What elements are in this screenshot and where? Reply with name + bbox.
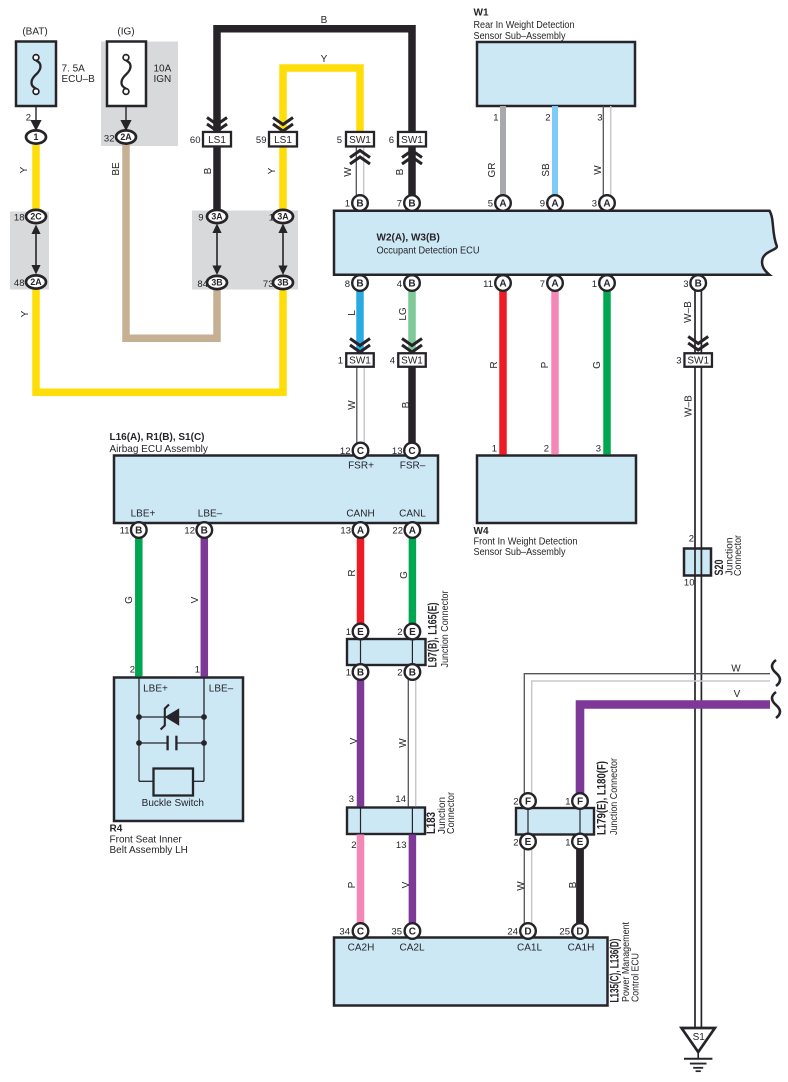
svg-text:13: 13: [396, 840, 407, 851]
svg-text:2A: 2A: [30, 277, 42, 287]
svg-text:2A: 2A: [120, 132, 132, 142]
svg-text:B: B: [395, 168, 406, 175]
svg-text:F: F: [577, 797, 583, 808]
svg-text:A: A: [551, 199, 558, 210]
svg-text:B: B: [135, 526, 142, 537]
svg-text:C: C: [357, 446, 364, 457]
svg-text:73: 73: [263, 279, 274, 290]
svg-text:W2(A), W3(B): W2(A), W3(B): [377, 233, 440, 244]
svg-text:3: 3: [596, 444, 601, 455]
svg-text:E: E: [409, 627, 416, 638]
svg-text:G: G: [399, 571, 410, 579]
svg-text:Sensor Sub–Assembly: Sensor Sub–Assembly: [474, 31, 566, 42]
svg-text:60: 60: [190, 135, 201, 146]
svg-text:W1: W1: [474, 8, 489, 19]
svg-text:3B: 3B: [277, 278, 288, 288]
svg-text:4: 4: [390, 356, 395, 367]
svg-text:W–B: W–B: [683, 301, 694, 323]
svg-text:A: A: [603, 199, 610, 210]
svg-text:E: E: [525, 837, 532, 848]
svg-text:ECU–B: ECU–B: [62, 74, 96, 85]
svg-text:32: 32: [104, 134, 115, 145]
svg-text:14: 14: [395, 794, 406, 805]
svg-text:2: 2: [397, 627, 402, 638]
svg-text:1: 1: [565, 797, 570, 808]
svg-text:5: 5: [337, 135, 342, 146]
svg-text:B: B: [695, 279, 702, 290]
svg-text:11: 11: [483, 279, 493, 290]
svg-text:E: E: [357, 627, 364, 638]
svg-text:2: 2: [545, 113, 550, 124]
svg-text:12: 12: [184, 526, 195, 537]
svg-text:FSR+: FSR+: [348, 461, 374, 472]
svg-text:Belt Assembly LH: Belt Assembly LH: [110, 845, 188, 856]
svg-text:1: 1: [346, 627, 351, 638]
svg-text:B: B: [401, 401, 412, 408]
svg-text:Junction Connector: Junction Connector: [440, 590, 451, 668]
svg-text:7. 5A: 7. 5A: [62, 64, 86, 75]
svg-text:CA1L: CA1L: [517, 943, 542, 954]
svg-text:LS1: LS1: [208, 135, 226, 146]
svg-text:W: W: [347, 400, 358, 410]
svg-text:V: V: [190, 596, 201, 603]
svg-text:2C: 2C: [30, 212, 42, 222]
svg-text:3A: 3A: [277, 212, 289, 222]
svg-text:1: 1: [493, 113, 498, 124]
svg-text:B: B: [203, 167, 214, 174]
svg-text:CANH: CANH: [346, 509, 374, 520]
svg-text:L135(C), L136(D): L135(C), L136(D): [609, 938, 621, 1002]
svg-text:CA2H: CA2H: [348, 943, 375, 954]
svg-text:9: 9: [198, 213, 203, 224]
svg-text:A: A: [551, 279, 558, 290]
svg-text:Y: Y: [267, 167, 278, 174]
svg-text:10: 10: [684, 578, 695, 589]
svg-text:1: 1: [338, 356, 343, 367]
svg-text:3: 3: [349, 794, 354, 805]
svg-text:LBE–: LBE–: [198, 509, 223, 520]
svg-text:Control ECU: Control ECU: [630, 953, 641, 1002]
svg-text:48: 48: [14, 278, 25, 289]
svg-text:W–B: W–B: [684, 395, 695, 417]
svg-text:6: 6: [389, 135, 394, 146]
svg-text:Connector: Connector: [733, 534, 744, 576]
svg-text:24: 24: [507, 927, 518, 938]
svg-text:LS1: LS1: [274, 135, 292, 146]
svg-text:3: 3: [592, 199, 597, 210]
svg-text:FSR–: FSR–: [400, 461, 426, 472]
svg-text:SW1: SW1: [401, 135, 423, 146]
svg-text:LBE+: LBE+: [143, 684, 168, 695]
svg-text:2: 2: [689, 534, 694, 545]
svg-text:F: F: [525, 797, 531, 808]
svg-text:9: 9: [540, 199, 545, 210]
svg-text:A: A: [357, 526, 364, 537]
svg-text:Y: Y: [321, 54, 328, 65]
svg-text:S1: S1: [693, 1032, 706, 1043]
svg-text:CANL: CANL: [399, 509, 426, 520]
svg-text:2: 2: [351, 840, 356, 851]
svg-text:7: 7: [540, 279, 545, 290]
svg-text:3B: 3B: [211, 278, 222, 288]
svg-text:8: 8: [345, 279, 350, 290]
svg-text:SW1: SW1: [349, 356, 371, 367]
svg-text:3: 3: [683, 279, 688, 290]
svg-text:P: P: [347, 881, 358, 888]
svg-text:R: R: [347, 569, 358, 576]
svg-text:V: V: [349, 737, 360, 744]
svg-text:B: B: [408, 199, 415, 210]
svg-text:W: W: [343, 167, 354, 177]
svg-text:2: 2: [130, 665, 135, 676]
svg-text:C: C: [408, 446, 415, 457]
svg-text:R: R: [489, 361, 500, 368]
svg-text:34: 34: [339, 927, 350, 938]
svg-text:P: P: [540, 361, 551, 368]
svg-text:5: 5: [488, 199, 493, 210]
svg-text:D: D: [576, 927, 583, 938]
svg-text:A: A: [499, 199, 506, 210]
svg-text:LG: LG: [398, 307, 409, 321]
svg-text:3A: 3A: [211, 212, 223, 222]
svg-text:W: W: [398, 738, 409, 748]
svg-text:CA2L: CA2L: [399, 943, 424, 954]
svg-text:E: E: [577, 837, 584, 848]
svg-text:35: 35: [391, 927, 402, 938]
svg-text:B: B: [321, 15, 328, 26]
svg-text:2: 2: [513, 797, 518, 808]
svg-text:18: 18: [14, 213, 25, 224]
svg-text:Junction Connector: Junction Connector: [609, 757, 620, 835]
svg-text:LBE–: LBE–: [209, 684, 234, 695]
svg-text:B: B: [201, 526, 208, 537]
svg-text:A: A: [409, 526, 416, 537]
svg-text:C: C: [357, 927, 364, 938]
svg-text:W: W: [516, 881, 527, 891]
svg-text:Y: Y: [19, 166, 30, 173]
svg-text:13: 13: [392, 446, 403, 457]
svg-text:SW1: SW1: [401, 356, 423, 367]
svg-text:2: 2: [513, 838, 518, 849]
svg-text:1: 1: [346, 668, 351, 679]
svg-text:B: B: [356, 279, 363, 290]
svg-text:Sensor Sub–Assembly: Sensor Sub–Assembly: [474, 547, 566, 558]
svg-text:2: 2: [26, 113, 31, 124]
svg-text:1: 1: [195, 665, 200, 676]
svg-text:LBE+: LBE+: [131, 509, 156, 520]
svg-text:B: B: [357, 668, 364, 679]
svg-text:3: 3: [597, 113, 602, 124]
svg-text:1: 1: [565, 838, 570, 849]
svg-text:Y: Y: [20, 310, 31, 317]
svg-text:1: 1: [345, 199, 350, 210]
svg-text:22: 22: [392, 526, 403, 537]
svg-text:84: 84: [197, 279, 208, 290]
svg-text:V: V: [401, 881, 412, 888]
svg-text:(BAT): (BAT): [22, 27, 47, 38]
svg-text:Rear In Weight Detection: Rear In Weight Detection: [474, 20, 575, 31]
svg-text:B: B: [356, 199, 363, 210]
svg-text:1: 1: [34, 132, 39, 142]
svg-text:1: 1: [592, 279, 597, 290]
svg-text:BE: BE: [111, 162, 122, 176]
svg-text:Connector: Connector: [446, 791, 457, 834]
svg-text:W4: W4: [474, 526, 489, 537]
svg-text:L16(A), R1(B), S1(C): L16(A), R1(B), S1(C): [110, 432, 205, 443]
svg-text:Buckle Switch: Buckle Switch: [142, 798, 204, 809]
svg-text:IGN: IGN: [154, 74, 172, 85]
svg-text:SB: SB: [541, 163, 552, 177]
svg-text:(IG): (IG): [117, 27, 134, 38]
svg-text:7: 7: [397, 199, 402, 210]
svg-text:B: B: [409, 668, 416, 679]
svg-text:SW1: SW1: [687, 356, 709, 367]
svg-text:L: L: [347, 310, 358, 316]
svg-text:L179(E), L180(F): L179(E), L180(F): [596, 761, 608, 835]
svg-text:L97(B), L165(E): L97(B), L165(E): [428, 602, 440, 667]
svg-text:4: 4: [397, 279, 402, 290]
svg-text:W: W: [593, 165, 604, 175]
svg-text:C: C: [409, 927, 416, 938]
svg-text:B: B: [408, 279, 415, 290]
svg-text:1: 1: [269, 213, 274, 224]
svg-text:G: G: [124, 596, 135, 604]
svg-text:G: G: [592, 361, 603, 369]
svg-text:1: 1: [492, 444, 497, 455]
svg-text:SW1: SW1: [349, 135, 371, 146]
svg-text:R4: R4: [110, 824, 123, 835]
svg-text:CA1H: CA1H: [568, 943, 595, 954]
svg-text:B: B: [568, 881, 579, 888]
svg-text:Front In Weight Detection: Front In Weight Detection: [474, 537, 578, 548]
svg-text:25: 25: [559, 927, 570, 938]
svg-text:13: 13: [340, 526, 351, 537]
svg-text:2: 2: [544, 444, 549, 455]
svg-text:V: V: [734, 689, 741, 700]
svg-text:12: 12: [340, 446, 351, 457]
svg-text:3: 3: [676, 356, 681, 367]
svg-text:59: 59: [256, 135, 267, 146]
svg-text:11: 11: [120, 526, 130, 537]
svg-text:W: W: [731, 664, 741, 675]
svg-text:10A: 10A: [154, 64, 172, 75]
svg-text:2: 2: [397, 668, 402, 679]
svg-text:Airbag ECU Assembly: Airbag ECU Assembly: [110, 444, 208, 455]
svg-text:GR: GR: [487, 163, 498, 178]
svg-text:D: D: [524, 927, 531, 938]
svg-text:A: A: [603, 279, 610, 290]
svg-text:A: A: [499, 279, 506, 290]
svg-text:Front Seat Inner: Front Seat Inner: [110, 835, 183, 846]
svg-text:Occupant Detection ECU: Occupant Detection ECU: [377, 246, 480, 257]
